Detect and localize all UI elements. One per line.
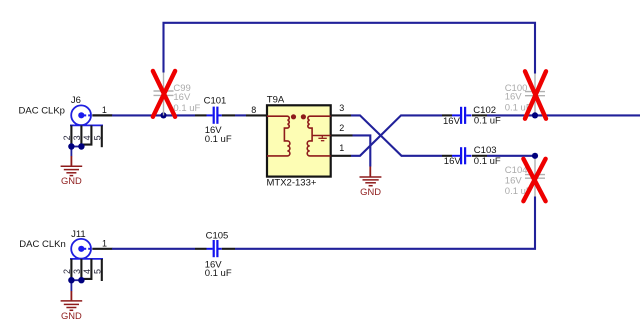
- svg-text:3: 3: [72, 269, 82, 274]
- svg-text:4: 4: [82, 135, 92, 140]
- pin 1 stub J11: [92, 248, 112, 250]
- no-fit cross C99: [153, 71, 175, 117]
- junction J11 shield pin3: [78, 277, 84, 283]
- wire C101 to T9A: [235, 114, 246, 116]
- svg-text:16V: 16V: [505, 175, 523, 186]
- junction node C102/C100: [532, 112, 538, 118]
- wire CLKn to C105: [112, 248, 195, 250]
- svg-text:16V: 16V: [444, 156, 462, 167]
- pin 1 stub T9A: [331, 155, 351, 157]
- svg-text:0.1 uF: 0.1 uF: [474, 156, 501, 167]
- svg-text:J6: J6: [71, 95, 81, 106]
- capacitor C101: [195, 107, 235, 124]
- pin 2 stub T9A: [331, 134, 353, 136]
- svg-text:C101: C101: [204, 95, 227, 106]
- wire pin2 to ground: [353, 135, 371, 166]
- label C99 value: [173, 83, 200, 114]
- capacitor C103: [442, 147, 487, 164]
- wire C102 to junction and right edge: [487, 114, 640, 116]
- svg-text:2: 2: [62, 269, 72, 274]
- svg-text:1: 1: [339, 143, 344, 153]
- svg-text:C103: C103: [474, 145, 497, 156]
- capacitor C102: [442, 107, 487, 124]
- svg-text:0.1 uF: 0.1 uF: [205, 134, 232, 145]
- capacitor C104 (not fitted, gray): [525, 156, 545, 197]
- wire CLKp to junction: [112, 114, 195, 116]
- svg-text:1: 1: [102, 238, 107, 248]
- junction node C103/C104: [532, 153, 538, 159]
- svg-text:GND: GND: [61, 310, 82, 321]
- wire crossover pin3 to lower row: [351, 115, 442, 155]
- winding secondary: [307, 116, 331, 156]
- label C102 value: [443, 116, 501, 127]
- label C101 value: [205, 125, 232, 145]
- label C105 value: [205, 259, 232, 279]
- connector J6: [62, 105, 103, 147]
- label C104 value: [505, 165, 532, 197]
- svg-text:4: 4: [82, 269, 92, 274]
- pin 1 stub J6: [92, 114, 112, 116]
- svg-text:0.1 uF: 0.1 uF: [474, 116, 501, 127]
- wire crossover pin1 to upper row: [351, 115, 442, 155]
- svg-text:1: 1: [102, 105, 107, 115]
- svg-text:GND: GND: [61, 175, 82, 186]
- svg-text:0.1 uF: 0.1 uF: [173, 103, 200, 114]
- label C100 value: [505, 83, 532, 114]
- transformer T9A: [267, 105, 331, 176]
- svg-text:GND: GND: [360, 186, 381, 197]
- no-fit cross C100: [525, 71, 546, 118]
- capacitor C100 (not fitted, gray): [525, 74, 545, 116]
- svg-text:C104: C104: [505, 165, 528, 176]
- junction J11 shield pin2: [68, 277, 74, 283]
- junction J6 shield pin3: [78, 143, 84, 149]
- svg-text:2: 2: [339, 123, 344, 133]
- svg-text:T9A: T9A: [267, 94, 285, 105]
- svg-text:16V: 16V: [505, 91, 523, 102]
- phase dot secondary: [301, 114, 306, 119]
- svg-text:16V: 16V: [173, 92, 191, 103]
- connector J11: [62, 239, 103, 281]
- svg-text:2: 2: [62, 135, 72, 140]
- center tap ground mark: [318, 136, 326, 141]
- wire top loop: [164, 23, 536, 74]
- ground GND J11: [61, 291, 83, 321]
- ground GND T9A: [360, 167, 382, 197]
- winding primary: [267, 116, 290, 156]
- svg-text:MTX2-133+: MTX2-133+: [267, 178, 317, 189]
- junction node CLKp: [160, 112, 166, 118]
- svg-text:0.1 uF: 0.1 uF: [205, 268, 232, 279]
- svg-text:3: 3: [339, 103, 344, 113]
- capacitor C99 (not fitted, gray): [154, 73, 174, 116]
- svg-text:C102: C102: [473, 105, 496, 116]
- label C103 value: [444, 156, 501, 167]
- no-fit cross C104: [523, 159, 545, 201]
- junction J6 shield pin2: [68, 143, 74, 149]
- pin 8 stub T9A: [246, 114, 267, 116]
- phase dot primary: [291, 114, 296, 119]
- ground GND J6: [61, 156, 83, 186]
- svg-text:5: 5: [93, 269, 103, 274]
- wire J6 shield to ground: [71, 147, 81, 157]
- wire C104 to CLKn row: [235, 197, 535, 249]
- svg-text:DAC CLKn: DAC CLKn: [19, 239, 65, 250]
- wire C103 to junction: [487, 155, 535, 157]
- svg-text:5: 5: [93, 135, 103, 140]
- capacitor C105: [195, 240, 235, 257]
- wire J11 shield to ground: [71, 280, 81, 291]
- svg-text:8: 8: [251, 105, 256, 115]
- pin 3 stub T9A: [331, 114, 351, 116]
- svg-text:16V: 16V: [443, 116, 461, 127]
- svg-text:3: 3: [72, 135, 82, 140]
- svg-text:C105: C105: [206, 230, 229, 241]
- svg-text:DAC CLKp: DAC CLKp: [19, 106, 65, 117]
- center tap secondary: [312, 135, 331, 137]
